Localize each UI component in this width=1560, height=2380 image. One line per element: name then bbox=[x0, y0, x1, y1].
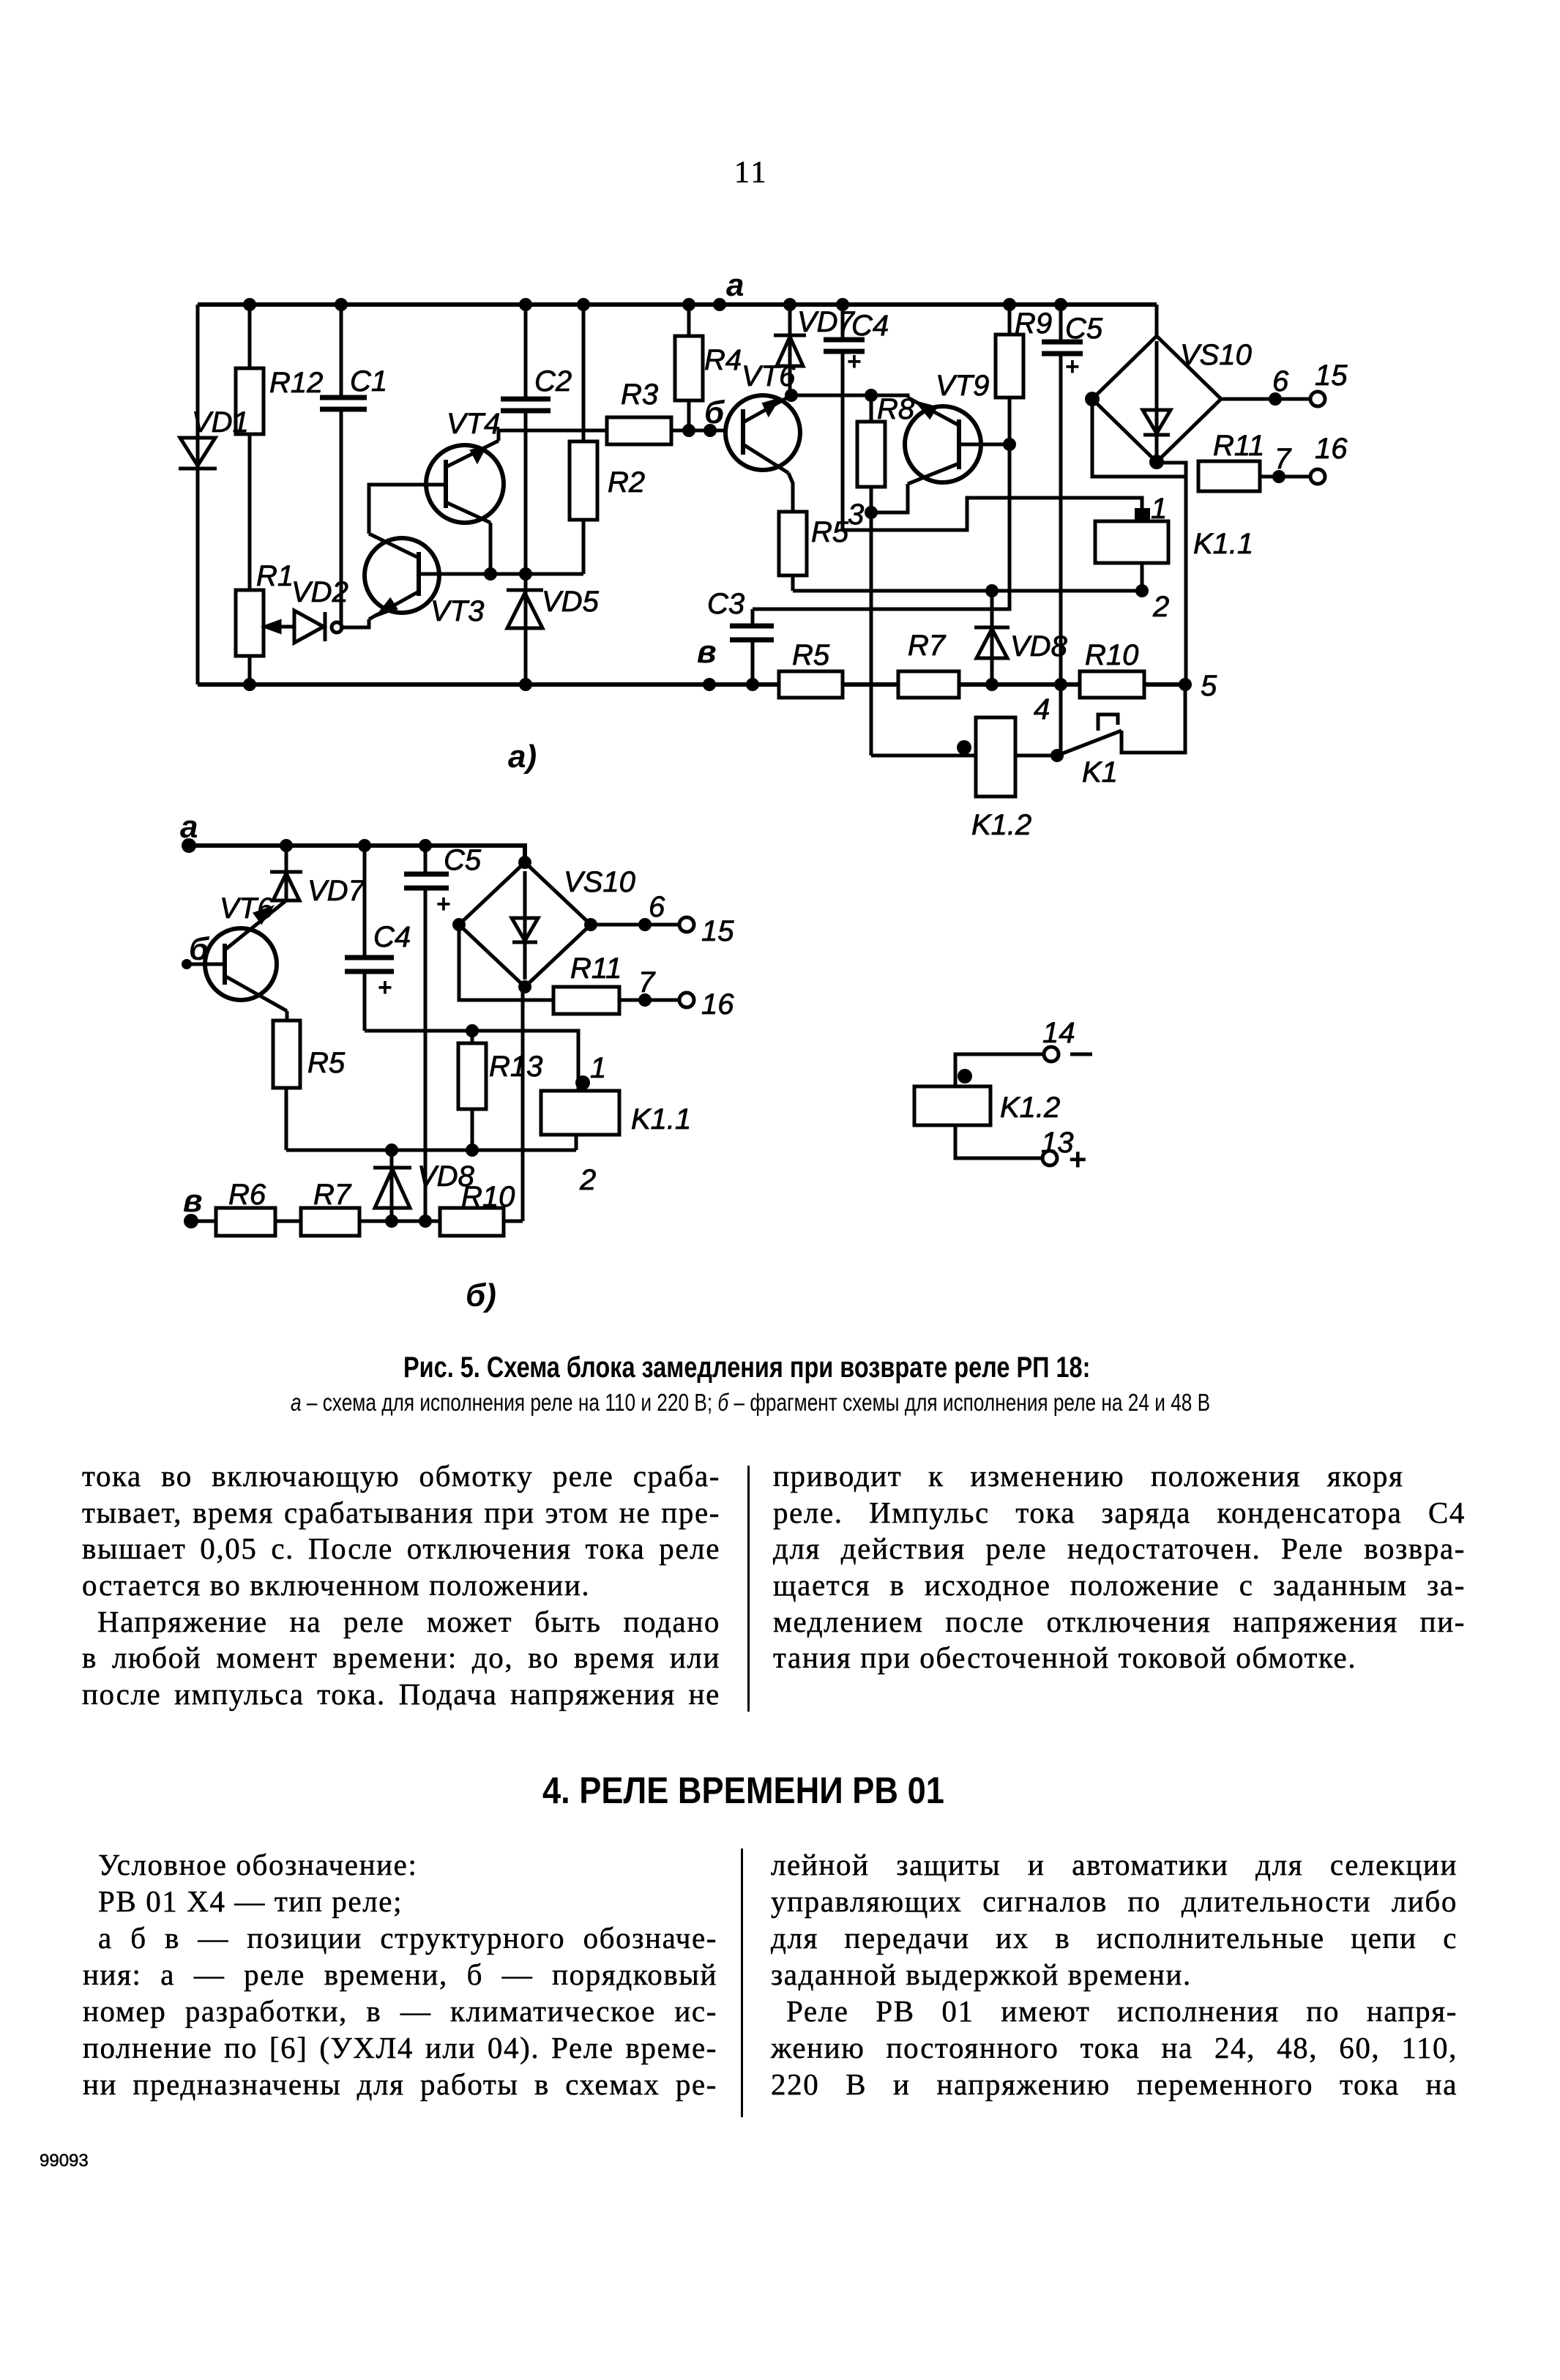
wire VS10 right vertex to terminal 15 bbox=[1221, 359, 1348, 406]
node б (VT6 base terminal) bbox=[704, 395, 725, 437]
svg-text:VS10: VS10 bbox=[564, 866, 635, 898]
svg-text:C5: C5 bbox=[444, 844, 482, 876]
capacitor C5 bbox=[404, 839, 482, 1228]
wire to coil bbox=[955, 1054, 1044, 1086]
relay coil K1.2 bbox=[914, 1086, 1060, 1125]
capacitor C3 bbox=[707, 588, 774, 691]
svg-text:K1: K1 bbox=[1082, 756, 1118, 788]
resistor R4 bbox=[675, 298, 742, 437]
svg-text:C1: C1 bbox=[350, 365, 387, 398]
svg-text:VT3: VT3 bbox=[430, 595, 484, 627]
relay coil K1.2 bbox=[871, 693, 1064, 841]
wire VS10 left vertex down to R11 bbox=[459, 925, 553, 1000]
svg-text:R7: R7 bbox=[908, 630, 947, 662]
wire VT3 base line bbox=[419, 572, 583, 576]
svg-text:в: в bbox=[697, 634, 717, 670]
svg-text:+: + bbox=[436, 890, 451, 918]
resistor R2 bbox=[570, 298, 645, 574]
svg-text:K1.2: K1.2 bbox=[1000, 1092, 1060, 1124]
svg-text:1: 1 bbox=[590, 1052, 606, 1084]
svg-text:VD7: VD7 bbox=[797, 306, 856, 338]
wire: left rail bbox=[196, 305, 200, 684]
resistor R1 (with wiper arrow) bbox=[236, 560, 296, 684]
capacitor C1 bbox=[320, 298, 387, 624]
svg-text:7: 7 bbox=[638, 966, 656, 999]
svg-text:a: a bbox=[726, 267, 744, 303]
node в (terminal on bottom rail) bbox=[697, 634, 717, 691]
resistor R5 (bottom rail) bbox=[779, 639, 843, 698]
resistor R7 bbox=[301, 1179, 440, 1236]
node a (terminal on top rail) bbox=[713, 267, 744, 311]
svg-text:2: 2 bbox=[1152, 591, 1169, 623]
svg-text:VD7: VD7 bbox=[307, 875, 366, 907]
svg-text:16: 16 bbox=[1315, 433, 1348, 465]
svg-text:2: 2 bbox=[579, 1164, 596, 1196]
transistor VT3 bbox=[365, 534, 484, 627]
page number bbox=[734, 155, 768, 190]
body text block 1, right column bbox=[773, 1460, 1404, 1492]
svg-text:14: 14 bbox=[1042, 1017, 1075, 1049]
svg-text:R12: R12 bbox=[269, 367, 323, 399]
svg-text:4: 4 bbox=[1034, 693, 1050, 725]
resistor R9 bbox=[996, 298, 1052, 444]
body text block 2, left column bbox=[83, 1849, 417, 1881]
wire: rail a bbox=[189, 846, 525, 862]
svg-text:K1.2: K1.2 bbox=[971, 809, 1031, 841]
body text block 2, right column bbox=[771, 1849, 1458, 1881]
caption б) bbox=[466, 1277, 496, 1313]
wire VS10 bottom vertex to node 5 vertical bbox=[1157, 462, 1217, 702]
svg-text:C2: C2 bbox=[534, 365, 572, 398]
wire C4 bottom to K1.1 pin1 bbox=[365, 1031, 590, 1091]
svg-text:б): б) bbox=[466, 1277, 496, 1313]
node в (terminal) bbox=[183, 1183, 203, 1228]
resistor R7 bbox=[898, 630, 959, 698]
svg-text:R4: R4 bbox=[704, 344, 742, 376]
bridge rectifier VS10 bbox=[452, 856, 635, 993]
wire C4 to K1.1 pin 1 bbox=[843, 498, 1142, 530]
diode VD7 bbox=[270, 839, 366, 907]
svg-text:+: + bbox=[1065, 353, 1080, 381]
resistor R11 bbox=[1198, 430, 1348, 491]
svg-text:R10: R10 bbox=[1085, 639, 1138, 671]
svg-text:R6: R6 bbox=[228, 1179, 266, 1211]
wire VD2 node to VT3 emitter bbox=[340, 619, 369, 627]
diode VD7 bbox=[774, 298, 856, 402]
svg-text:16: 16 bbox=[701, 988, 734, 1021]
wire: bottom rail bbox=[198, 682, 1185, 687]
diode VD2 bbox=[291, 576, 348, 643]
svg-text:3: 3 bbox=[848, 499, 864, 531]
capacitor C5 bbox=[1042, 298, 1103, 756]
resistor R5 bbox=[273, 1011, 346, 1150]
svg-text:15: 15 bbox=[701, 915, 734, 947]
column divider block 1 bbox=[747, 1466, 750, 1712]
svg-text:C3: C3 bbox=[707, 588, 744, 620]
diode VD5 bbox=[507, 574, 600, 691]
terminal 14 bbox=[1042, 1017, 1092, 1062]
svg-text:б: б bbox=[189, 931, 210, 967]
wire VT9 base to R9 vertical bbox=[959, 438, 1016, 451]
svg-text:C4: C4 bbox=[851, 310, 889, 342]
svg-text:в: в bbox=[183, 1183, 203, 1219]
body text block 1, left column bbox=[82, 1460, 720, 1492]
svg-text:R10: R10 bbox=[461, 1181, 515, 1213]
capacitor C4 bbox=[345, 839, 411, 1031]
wire VT9 upper to R8-top line bbox=[871, 395, 908, 398]
svg-text:+: + bbox=[378, 974, 392, 1001]
svg-text:+: + bbox=[1069, 1142, 1087, 1176]
resistor R10 bbox=[440, 1181, 523, 1236]
capacitor C4 bbox=[824, 298, 889, 530]
svg-text:K1.1: K1.1 bbox=[1193, 528, 1253, 560]
svg-text:R11: R11 bbox=[1213, 430, 1264, 462]
svg-text:R5: R5 bbox=[811, 516, 849, 548]
svg-text:7: 7 bbox=[1275, 443, 1292, 475]
svg-text:VT6: VT6 bbox=[220, 892, 274, 925]
wire to terminal 13 bbox=[955, 1125, 1042, 1158]
svg-text:R1: R1 bbox=[256, 560, 294, 592]
resistor R11 bbox=[553, 952, 734, 1021]
wire VS10 left vertex down and right bbox=[1092, 399, 1186, 477]
svg-text:а): а) bbox=[508, 739, 537, 775]
wire VT6 collector node to R8 bbox=[791, 389, 878, 402]
resistor R10 bbox=[1080, 639, 1144, 698]
junction dots top/bottom of R12-R1 branch bbox=[243, 298, 256, 691]
svg-text:R13: R13 bbox=[489, 1051, 542, 1083]
svg-text:R11: R11 bbox=[570, 952, 622, 985]
resistor R12 bbox=[236, 305, 323, 434]
wire node line 1 (R5 bottom to K1.1 pin2) bbox=[793, 589, 1142, 593]
resistor R5 (VT6 emitter) bbox=[779, 473, 849, 591]
transistor VT6 bbox=[725, 360, 800, 473]
relay contact K1.1 bbox=[541, 1052, 691, 1196]
diode VD8 bbox=[974, 584, 1068, 691]
figure caption bbox=[403, 1351, 1090, 1384]
wire VT4 emitter down to base line bbox=[484, 523, 497, 581]
svg-text:R5: R5 bbox=[792, 639, 830, 671]
transistor VT4 bbox=[426, 408, 504, 523]
svg-text:+: + bbox=[847, 348, 862, 376]
svg-text:a: a bbox=[180, 809, 198, 845]
svg-text:VT4: VT4 bbox=[447, 408, 500, 440]
svg-text:6: 6 bbox=[1272, 365, 1289, 398]
svg-text:C4: C4 bbox=[373, 921, 411, 953]
diode VD8 bbox=[373, 1144, 475, 1228]
svg-text:1: 1 bbox=[1151, 493, 1167, 525]
svg-text:R7: R7 bbox=[313, 1179, 352, 1211]
svg-text:15: 15 bbox=[1315, 359, 1348, 392]
svg-text:б: б bbox=[704, 395, 725, 430]
bridge rectifier VS10 bbox=[1085, 305, 1252, 469]
capacitor C2 bbox=[501, 298, 572, 581]
wire VS10 bottom vertex down to R10 bbox=[521, 987, 525, 1221]
svg-text:5: 5 bbox=[1201, 670, 1217, 702]
wire VT3 collector loop to VT4 base bbox=[369, 485, 446, 534]
svg-text:C5: C5 bbox=[1065, 313, 1103, 345]
svg-text:R2: R2 bbox=[608, 466, 645, 499]
svg-text:VD5: VD5 bbox=[542, 586, 600, 618]
terminal 13 bbox=[1041, 1127, 1087, 1176]
svg-text:R5: R5 bbox=[307, 1047, 346, 1079]
wire node3 vertical down to K1.2 line bbox=[870, 512, 873, 756]
wire R12 to R1 bbox=[248, 434, 252, 590]
wire: top supply rail bbox=[198, 302, 1157, 307]
node 3 bbox=[848, 499, 878, 531]
svg-text:K1.1: K1.1 bbox=[631, 1103, 691, 1135]
resistor R13 bbox=[458, 1024, 542, 1157]
svg-text:VT9: VT9 bbox=[936, 370, 989, 402]
column divider block 2 bbox=[741, 1849, 743, 2117]
svg-text:VS10: VS10 bbox=[1180, 339, 1252, 371]
resistor R3 bbox=[607, 378, 725, 444]
wire VT9 lower to node 3 bbox=[871, 484, 908, 512]
printer code bbox=[40, 2151, 89, 2171]
resistor R6 bbox=[191, 1179, 301, 1236]
svg-text:6: 6 bbox=[649, 891, 665, 923]
switch K1 bbox=[1057, 684, 1185, 788]
node a (terminal, rail) bbox=[180, 809, 198, 853]
resistor R8 bbox=[857, 393, 915, 512]
diode VD1 bbox=[179, 406, 249, 469]
wire: lower node line (R5 to K1.1 pin2) bbox=[286, 1149, 576, 1152]
caption a) bbox=[508, 739, 537, 775]
wire R9 vertical down + node line 2 to C3 bbox=[753, 444, 1009, 609]
wire VS10 right vertex to terminal 15 bbox=[591, 891, 734, 947]
transistor VT6 bbox=[182, 892, 287, 1011]
wire VT4 collector up to R3 line bbox=[499, 430, 607, 441]
relay contact K1.1 bbox=[1095, 493, 1253, 623]
transistor VT9 bbox=[905, 370, 989, 484]
svg-text:R3: R3 bbox=[621, 378, 658, 411]
section heading bbox=[542, 1769, 944, 1812]
svg-text:R9: R9 bbox=[1015, 307, 1052, 340]
